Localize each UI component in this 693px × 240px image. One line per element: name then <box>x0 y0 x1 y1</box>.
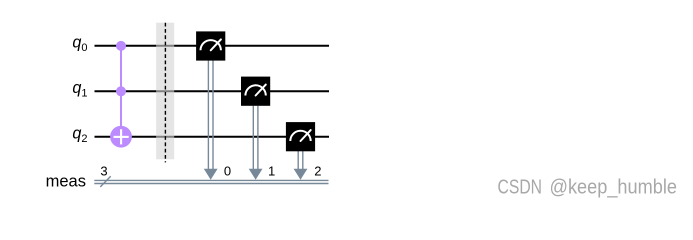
measure gate M0 on q0 <box>196 31 225 60</box>
qubit label q0 <box>72 34 87 54</box>
barrier dashed line <box>164 23 166 163</box>
wire q1 <box>95 90 330 92</box>
clbit index label 0 <box>224 164 231 179</box>
measure arrow to clbit 2 (double line + arrowhead) <box>294 151 308 180</box>
ccx control dot on q1 <box>116 86 126 96</box>
classical bundle size label 3 <box>100 164 107 179</box>
classical bundle slash <box>100 176 110 187</box>
qubit label q1 <box>72 79 87 99</box>
ccx control dot on q0 <box>116 41 126 51</box>
svg-text:1: 1 <box>268 164 275 179</box>
clbit index label 1 <box>268 164 275 179</box>
classical wire meas (double line) <box>94 180 328 183</box>
svg-text:@keep_humble: @keep_humble <box>550 176 678 198</box>
svg-text:2: 2 <box>314 164 321 179</box>
measure arrow to clbit 0 (double line + arrowhead) <box>204 60 218 179</box>
measure gate M2 on q2 <box>286 122 315 151</box>
svg-text:meas: meas <box>46 172 86 190</box>
ccx gate U0 vertical connector <box>120 46 122 137</box>
svg-text:CSDN: CSDN <box>498 176 543 198</box>
watermark CSDN @keep_humble <box>498 176 678 198</box>
qubit label q2 <box>72 125 87 145</box>
measure gate M1 on q1 <box>241 77 270 106</box>
barrier shaded region <box>156 23 174 160</box>
measure arrow to clbit 1 (double line + arrowhead) <box>249 106 263 180</box>
wire q2 <box>95 136 330 138</box>
classical register label meas <box>46 172 86 190</box>
svg-text:0: 0 <box>224 164 231 179</box>
wire q0 <box>95 45 330 47</box>
clbit index label 2 <box>314 164 321 179</box>
ccx target on q2 <box>110 126 132 148</box>
svg-text:3: 3 <box>100 164 107 179</box>
